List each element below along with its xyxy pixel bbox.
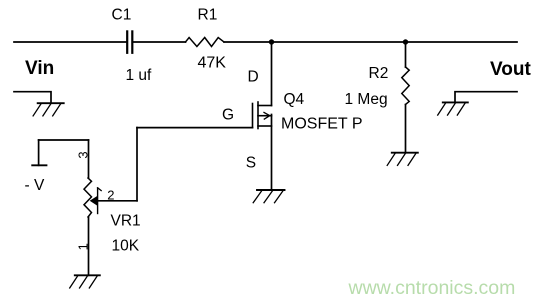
node B (R2 branch junction): [403, 39, 408, 44]
node A (drain branch junction): [269, 39, 274, 44]
potentiometer VR1 body: [84, 178, 92, 217]
svg-text:www.cntronics.com: www.cntronics.com: [348, 277, 516, 299]
svg-text:MOSFET P: MOSFET P: [281, 116, 363, 133]
ground (R2): [387, 153, 418, 166]
svg-text:1 Meg: 1 Meg: [345, 91, 388, 108]
svg-text:D: D: [248, 68, 259, 85]
transistor Q4 (P-MOSFET): [253, 102, 272, 129]
ground (source): [253, 190, 284, 203]
wire R2 to ground: [405, 105, 407, 153]
wire VR1 to ground: [88, 217, 90, 275]
VR1 wiper arrow head: [98, 188, 102, 191]
svg-text:R2: R2: [369, 65, 389, 82]
svg-text:VR1: VR1: [111, 212, 141, 229]
channel bar: [257, 102, 259, 129]
svg-text:3: 3: [76, 151, 91, 158]
-V terminal bar: [32, 164, 46, 166]
wire node B to R2: [405, 42, 407, 67]
gate bar: [252, 104, 254, 128]
wire -V to VR1 top: [88, 140, 90, 178]
wire -V supply drop: [38, 140, 40, 165]
wire C1 to R1: [133, 41, 186, 43]
wire gate: [137, 127, 253, 129]
wire -V supply top: [39, 139, 89, 141]
svg-text:G: G: [222, 106, 234, 123]
svg-text:47K: 47K: [198, 55, 227, 72]
ground (VR1): [70, 275, 100, 288]
source lead: [258, 125, 272, 127]
svg-text:Q4: Q4: [284, 91, 305, 108]
svg-text:1 uf: 1 uf: [126, 67, 153, 84]
wire Vin ground stub: [14, 92, 51, 104]
VR1 wiper triangle: [90, 196, 98, 206]
svg-text:C1: C1: [112, 6, 132, 23]
resistor R1: [186, 38, 225, 47]
wire gate riser: [136, 128, 138, 201]
drain lead: [258, 105, 272, 107]
svg-text:Vin: Vin: [25, 58, 54, 79]
body lead with arrow: [258, 115, 272, 117]
wire MOSFET source down: [271, 115, 273, 191]
wire node A to MOSFET drain: [271, 42, 273, 106]
svg-text:S: S: [246, 154, 256, 171]
ground (Vout): [438, 102, 468, 115]
wire main left (Vin to C1): [14, 41, 127, 43]
capacitor C1: [127, 30, 132, 54]
resistor R2: [402, 67, 409, 105]
svg-text:10K: 10K: [112, 237, 140, 254]
wire wiper to gate riser: [97, 200, 137, 202]
wire R1 to right edge: [224, 41, 517, 43]
svg-text:R1: R1: [198, 6, 218, 23]
VR1 wiper arrow shaft: [97, 188, 99, 214]
wire Vout ground stub: [455, 92, 517, 103]
svg-text:- V: - V: [25, 177, 45, 194]
svg-text:Vout: Vout: [490, 59, 531, 80]
ground (Vin): [33, 103, 64, 116]
